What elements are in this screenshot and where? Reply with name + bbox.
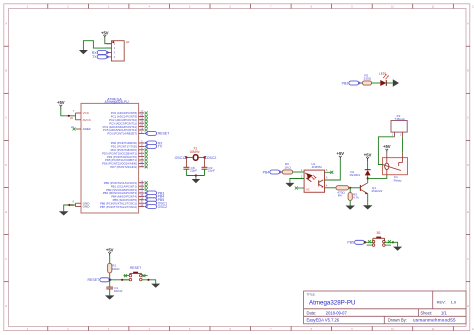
frame zone ticks left/right [4,45,9,47]
svg-text:D: D [5,164,7,167]
net PB4 flag on PB4 [145,195,147,198]
svg-text:2018-09-07: 2018-09-07 [326,311,348,316]
svg-text:OSC2: OSC2 [207,156,217,160]
wire H1 pin2 to ground [83,41,111,50]
svg-text:PB3: PB3 [342,81,349,85]
wire flag to B1 [365,241,366,243]
svg-text:4N35M: 4N35M [312,165,322,169]
svg-text:16MHz: 16MHz [189,150,200,154]
svg-text:22pF: 22pF [190,169,197,173]
net TX flag to H1 pin4 [97,55,107,59]
svg-text:+5V: +5V [106,247,114,252]
ground (Q1) [363,205,373,209]
svg-text:+5V: +5V [337,151,345,156]
svg-text:+5V: +5V [101,30,109,35]
wire R1 to node [109,273,111,287]
svg-text:Relay: Relay [394,179,402,183]
svg-text:B1: B1 [377,231,381,235]
relay K1 body [383,158,408,175]
net RESET flag on PC6 [145,132,147,135]
terminal block P2 [391,121,407,133]
svg-text:PD7 (PCINT23/AIN1): PD7 (PCINT23/AIN1) [110,165,137,169]
relay NO pin stub [401,153,403,158]
wire R3 to opto pin1 [293,171,305,173]
svg-text:22pF: 22pF [208,169,215,173]
net PB5 flag on PB5 [145,199,147,202]
wire C1 to ground [109,289,111,296]
ground (opto input) [285,183,294,187]
ground (C1) [105,295,115,299]
svg-text:1/1: 1/1 [441,311,447,316]
net RX flag to H1 pin3 [97,51,107,55]
net RX flag on PD0 [145,142,147,145]
svg-text:usmanmehmood55: usmanmehmood55 [413,318,456,323]
svg-text:TX: TX [158,145,163,149]
svg-text:PB4: PB4 [263,170,270,174]
net PB4 flag (opto drive) [270,170,280,174]
svg-text:10: 10 [140,203,144,207]
junction R4 out [349,187,351,189]
svg-text:RESET: RESET [88,278,101,282]
frame zone ticks top/bottom [47,4,49,9]
svg-text:ATmega328-PU: ATmega328-PU [104,100,129,104]
net RESET flag (reset node) [100,278,110,282]
svg-text:20: 20 [70,116,73,120]
capacitor C1 100nF [106,286,113,288]
wire flag to R2 [361,82,363,84]
svg-text:RX: RX [92,51,98,55]
svg-text:1KΩ: 1KΩ [285,166,292,170]
junction D1/Q1/relay [367,177,369,179]
svg-text:13: 13 [140,163,144,167]
junction B1 left [364,241,366,243]
wire cap bottoms joined [186,175,204,177]
svg-text:OSC2: OSC2 [158,205,168,209]
svg-text:Atmega328P-PU: Atmega328P-PU [309,300,355,307]
svg-text:EasyEDA V5.7.26: EasyEDA V5.7.26 [307,318,340,323]
net TX flag on PD1 [145,145,147,148]
svg-text:4.7k: 4.7k [353,196,359,200]
svg-text:RESET: RESET [158,132,171,136]
svg-text:PB5: PB5 [347,241,354,245]
svg-text:Sheet:: Sheet: [420,311,432,316]
wire opto pin5 to +5V [325,160,341,180]
svg-text:G: G [467,305,469,308]
wire crystal row [186,156,193,158]
svg-text:Drawn By:: Drawn By: [388,318,407,323]
ground (MCU) [59,211,68,215]
net PB3 flag on PB3 [145,192,147,195]
net OSC1 flag on PB6 [145,202,147,205]
svg-text:D: D [467,164,469,167]
ground (crystal) [195,176,197,180]
ground (RESET button) [151,284,160,288]
net PB3 flag (LED drive) [349,81,359,85]
svg-text:Date:: Date: [307,311,317,316]
svg-text:PB7 (PCINT7/XTAL2/TOSC2): PB7 (PCINT7/XTAL2/TOSC2) [100,205,137,209]
wire R4 to Q1 base [349,187,361,189]
svg-text:1.0: 1.0 [451,299,457,304]
svg-text:T-Block: T-Block [395,117,406,121]
net OSC2 flag on PB7 [145,205,147,208]
capacitor C9 22pF [204,157,206,167]
transistor Q1 2N2222 [359,185,361,191]
svg-text:NC: NC [306,189,310,192]
capacitor C8 22pF [185,157,187,167]
wire R2 to LED1 [372,82,381,84]
LED LED1 [380,80,386,86]
svg-text:R4: R4 [338,193,342,197]
title block [304,291,466,324]
svg-text:TX: TX [92,55,97,59]
svg-text:AVCC: AVCC [83,118,92,122]
wire RESET button to ground [142,280,156,284]
svg-text:VCC: VCC [83,111,90,115]
svg-text:1N4001: 1N4001 [349,173,360,177]
resistor R5 4.7k [349,188,351,193]
svg-text:+5V: +5V [57,100,65,105]
resistor R4 470 [336,186,349,190]
wire flag to R3 [281,171,284,173]
wire Q1 collector to node [367,178,369,182]
relay coil pin stub to +5V [386,153,388,158]
svg-text:AREF: AREF [83,127,91,131]
ground (B1) [393,247,402,251]
wire GND pins to ground [75,203,77,206]
junction on GND wire [68,204,70,206]
wire Q1 emitter to ground [367,194,369,206]
optocoupler U1 4N35M [304,170,324,192]
svg-text:+5V: +5V [364,152,372,157]
pushbutton B1 [373,237,385,239]
no-connect X on AREF [73,128,76,131]
connector H1 [112,41,125,61]
wire P2 pin2 to relay NO [401,137,403,153]
svg-text:10KΩ: 10KΩ [112,267,121,271]
wire opto pin4 to R4 [325,187,337,189]
opto pin6 NC stub [325,171,331,173]
svg-text:C: C [467,117,469,120]
pushbutton RESET [130,272,142,274]
svg-text:C: C [5,117,7,120]
svg-text:TITLE:: TITLE: [307,293,316,297]
wire B1 to ground [384,242,398,246]
net PB5 flag (button B1) [355,240,365,244]
junction crystal bottom [195,174,197,176]
resistor R1 10K [109,256,111,263]
wire R5 to ground [349,200,351,205]
wire +5V to H1 pin1 [105,39,112,44]
wire D1 anode to node [367,175,369,178]
relay switch contact [383,165,390,168]
resistor R3 1K [282,170,292,174]
wire +5V to VCC/AVCC [75,113,77,120]
wire node to relay coil [368,175,387,179]
ground (LED, sideways) [393,79,399,86]
resistor R2 330 [363,81,372,85]
svg-text:RESET: RESET [130,266,141,270]
junction reset node [109,279,111,281]
svg-text:GND: GND [83,205,91,209]
svg-text:2N2222: 2N2222 [371,189,382,193]
wire node to RESET button [110,279,130,281]
svg-text:330Ω: 330Ω [364,77,372,81]
svg-text:+5V: +5V [383,144,391,149]
svg-text:PC6 (PCINT14/RESET): PC6 (PCINT14/RESET) [107,132,137,136]
junction crystal right [203,156,205,158]
svg-text:G: G [5,305,7,308]
ground (R5) [345,206,355,210]
wire LED1 to ground [386,82,393,84]
H1 pin1 marker dot [112,41,114,43]
svg-text:OSC1: OSC1 [175,156,185,160]
wire opto pin2 to ground [290,179,304,183]
ground (H1) [79,50,88,54]
svg-text:H1: H1 [126,40,130,44]
junction on VCC wire [68,115,70,117]
junction crystal left [185,156,187,158]
svg-text:100nF: 100nF [114,289,123,293]
wire P2 pin1 to relay COM [378,137,394,165]
opto pin3 NC stub [297,187,304,189]
junction B1 right [392,241,394,243]
mcu U2 ATmega328-PU body [81,103,139,213]
svg-text:REV:: REV: [437,299,446,304]
wire +5V to D1 cathode [367,161,369,170]
